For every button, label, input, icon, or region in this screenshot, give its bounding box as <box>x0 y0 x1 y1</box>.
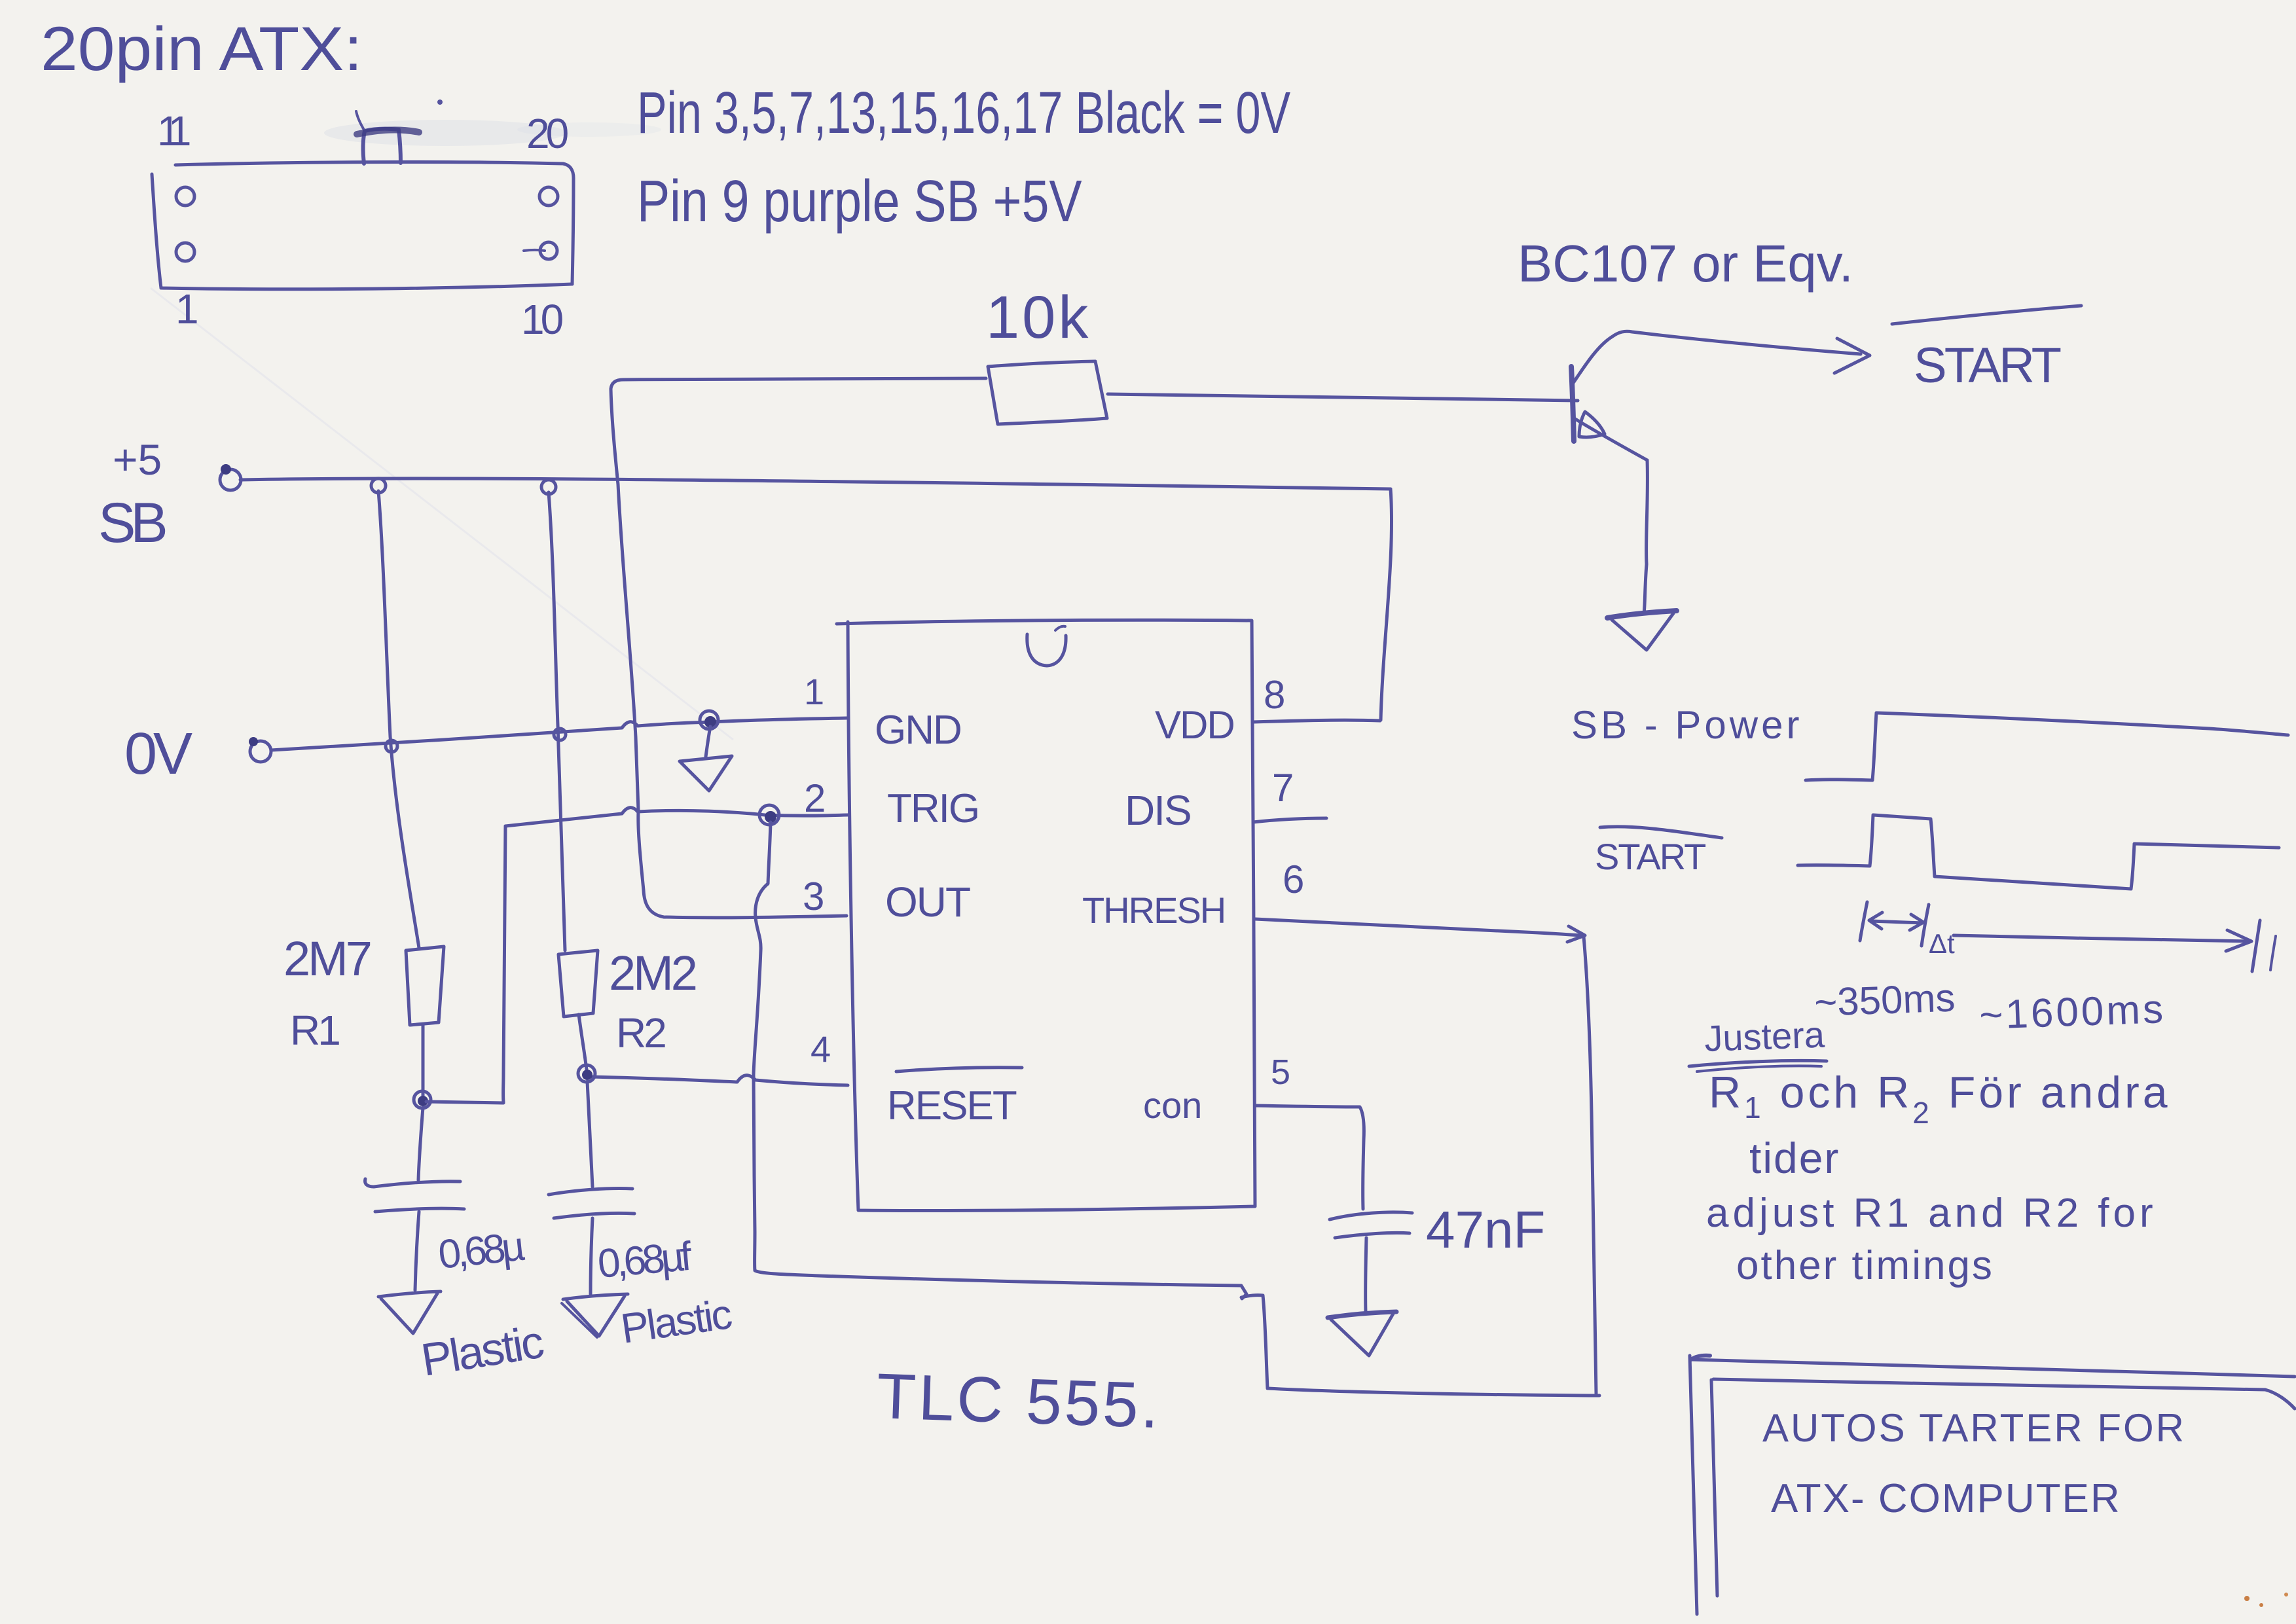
svg-text:R2: R2 <box>616 1009 665 1056</box>
svg-text:1: 1 <box>804 671 824 712</box>
svg-text:7: 7 <box>1272 766 1294 810</box>
svg-text:Pin 3,5,7,13,15,16,17 Black =: Pin 3,5,7,13,15,16,17 Black = 0V <box>637 80 1290 145</box>
svg-text:DIS: DIS <box>1125 787 1191 834</box>
svg-text:2: 2 <box>804 776 826 820</box>
svg-text:TLC 555.: TLC 555. <box>875 1360 1163 1441</box>
svg-text:TRIG: TRIG <box>887 786 979 831</box>
svg-text:THRESH: THRESH <box>1082 890 1225 931</box>
svg-text:OUT: OUT <box>885 878 970 926</box>
svg-text:ATX- COMPUTER: ATX- COMPUTER <box>1771 1476 2121 1521</box>
svg-text:3: 3 <box>803 875 824 918</box>
svg-text:VDD: VDD <box>1155 703 1234 747</box>
svg-text:adjust R1 and R2 for: adjust R1 and R2 for <box>1706 1191 2157 1236</box>
svg-text:SB: SB <box>98 492 165 554</box>
svg-text:10k: 10k <box>986 284 1091 351</box>
svg-text:2M7: 2M7 <box>283 931 371 986</box>
svg-text:0,68µf: 0,68µf <box>596 1234 694 1287</box>
svg-text:20: 20 <box>526 110 568 157</box>
svg-text:47nF: 47nF <box>1426 1200 1545 1259</box>
svg-text:2M2: 2M2 <box>609 946 696 1000</box>
svg-text:GND: GND <box>875 708 961 753</box>
svg-text:AUTOS TARTER FOR: AUTOS TARTER FOR <box>1762 1406 2186 1450</box>
svg-text:START: START <box>1914 338 2061 393</box>
svg-text:20pin ATX:: 20pin ATX: <box>41 14 363 83</box>
svg-text:0,68µ: 0,68µ <box>436 1224 526 1278</box>
svg-text:1: 1 <box>175 285 199 333</box>
svg-text:BC107 or Eqv.: BC107 or Eqv. <box>1518 234 1853 293</box>
svg-text:6: 6 <box>1283 857 1304 901</box>
svg-text:8: 8 <box>1264 673 1285 717</box>
svg-text:4: 4 <box>811 1028 831 1070</box>
svg-text:con: con <box>1143 1085 1202 1126</box>
svg-text:Pin 9 purple SB +5V: Pin 9 purple SB +5V <box>637 168 1082 234</box>
svg-text:0V: 0V <box>124 721 192 787</box>
svg-text:~350ms: ~350ms <box>1813 976 1956 1024</box>
svg-text:~1600ms: ~1600ms <box>1978 986 2166 1038</box>
svg-text:START: START <box>1595 836 1705 877</box>
svg-text:10: 10 <box>521 296 563 343</box>
svg-text:other timings: other timings <box>1736 1243 1994 1288</box>
svg-text:RESET: RESET <box>887 1083 1017 1128</box>
svg-text:Δt: Δt <box>1929 928 1955 959</box>
svg-text:+5: +5 <box>113 435 162 484</box>
svg-text:Justera: Justera <box>1704 1014 1826 1059</box>
svg-text:5: 5 <box>1271 1053 1290 1092</box>
svg-text:tider: tider <box>1749 1134 1840 1182</box>
svg-text:R1: R1 <box>290 1007 339 1054</box>
svg-text:SB - Power: SB - Power <box>1571 703 1802 747</box>
